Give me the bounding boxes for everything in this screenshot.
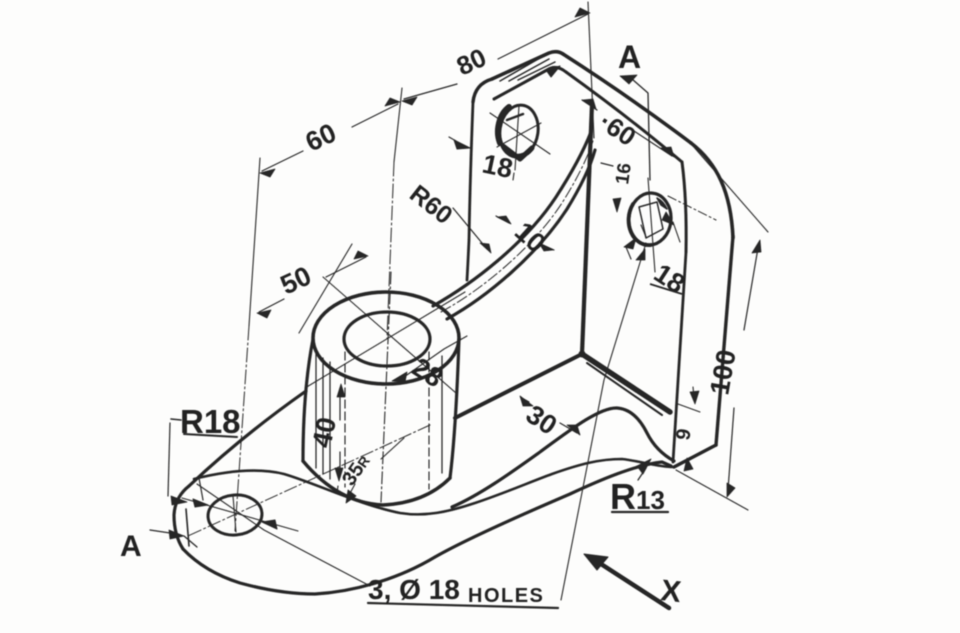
R18 leading dash: [171, 419, 181, 420]
dim 100 arrow bottom: [727, 483, 735, 497]
junction band lower line: [587, 363, 662, 415]
dim 10 arrow upper: [497, 216, 511, 224]
end cap tangent edge: [186, 509, 189, 546]
svg-text:A: A: [618, 39, 641, 75]
extension mid continues to cylinder center: [387, 162, 394, 338]
dim 9 tick top: [693, 387, 694, 398]
top band inner corner curve: [682, 162, 686, 252]
hole 2 dashdot NE: [668, 196, 716, 220]
base bottom silhouette: [183, 462, 671, 594]
hole 1 dim arrow lower-left: [454, 140, 470, 149]
dim .60 arrow right: [661, 147, 674, 157]
dim 18 hole2 stub lower: [626, 247, 631, 259]
extension line left: [249, 158, 260, 326]
band hatch stroke 2: [509, 59, 549, 81]
dim 9 arrow up: [684, 458, 693, 471]
dim 18 hole2: lower-left arrow: [624, 238, 636, 249]
dim 80 arrow left: [402, 97, 417, 105]
cylinder bottom arc: [303, 461, 450, 505]
top band inner edge left leg: [494, 67, 566, 99]
upright plate: top-left corner arc: [473, 79, 492, 102]
extension line mid: [394, 88, 402, 162]
dimension 100 line: [728, 248, 758, 490]
vertical ridge between the two faces: [582, 104, 592, 354]
dim 18 hole2 stub upper: [673, 222, 680, 242]
web centerline dash-dot: [441, 141, 593, 312]
right face inner vertical edge: [673, 252, 686, 462]
base left end cap outer arc: [174, 486, 189, 549]
holes label leader from hole3: [197, 484, 370, 586]
dim 16 line to hole: [614, 200, 617, 210]
end cap inner tick: [199, 478, 203, 500]
dim 9 arrow down: [690, 391, 699, 404]
dim 10: arrows across web: [496, 216, 554, 250]
hole 3 dim line +14deg: [182, 498, 298, 531]
top band outer edge left leg: [492, 52, 563, 79]
dim 40 tick below: [337, 486, 338, 493]
extension line bottom-right: [676, 470, 748, 510]
hole 1 dark blob bottom: [503, 146, 532, 159]
dim 100 arrow top: [752, 240, 761, 253]
section line A bottom: leader: [150, 530, 170, 533]
extension line top-right for 100: [693, 146, 768, 232]
hole2 18 label underline: [650, 284, 682, 294]
dim 40: line: [339, 388, 341, 477]
section tail bottom: [184, 536, 197, 547]
R13 arrow: [637, 459, 651, 474]
holes label underline: [368, 603, 558, 608]
hole 1 rim dark arc top-left: [498, 107, 509, 143]
dimension 50: line: [259, 257, 366, 312]
hole 1 centerline diag b: [497, 123, 541, 147]
dim 28 leader: [404, 336, 467, 377]
band corner dark wedge / dim arrow on band: [546, 66, 560, 77]
cylinder axis dash-dot: [381, 272, 391, 502]
dim 30: line: [522, 398, 577, 433]
hole 2 rim: [627, 191, 673, 246]
band hatch stroke 3: [518, 62, 555, 80]
cylinder inner hole ellipse: [344, 312, 430, 366]
R18 leader down: [168, 423, 170, 496]
cylinder left edge: [303, 339, 313, 461]
dim 40 arrow bottom: [335, 468, 343, 481]
upright plate: left face left edge: [467, 102, 473, 280]
dim .60 arrow left: [583, 99, 596, 109]
svg-text:HOLES: HOLES: [468, 585, 544, 607]
hole 2 rim dark arc left-bottom: [629, 204, 651, 245]
section arrow A bottom: [169, 530, 184, 539]
X arrowhead: [584, 554, 608, 570]
cylinder top centerline SW-NE: [305, 292, 465, 388]
right silhouette vertical edge: [716, 236, 733, 445]
R18 arrow: [171, 496, 187, 505]
hole 3 vertical centerline through: [233, 496, 236, 532]
dimension 80: line: [404, 14, 588, 99]
cylinder outer top ellipse: [313, 292, 459, 384]
section line A top: arrow: [620, 75, 637, 84]
svg-text:18: 18: [480, 149, 516, 185]
hole 2 top-right wedge: [657, 198, 667, 209]
top band outer edge right leg: [563, 54, 691, 143]
dim 28 arrow: [392, 372, 407, 382]
top band outer corner curve: [691, 143, 733, 238]
hole 1 dim stub: [449, 137, 456, 141]
svg-text:3, Ø 18: 3, Ø 18: [368, 574, 460, 605]
dim 10 arrow lower: [539, 243, 553, 251]
base front-top edge (dip curve): [194, 459, 673, 514]
hole 1 facet chord: [507, 114, 523, 120]
cylinder hidden hole edge left dashed: [344, 352, 346, 487]
hole 2 facet line: [641, 225, 646, 237]
dim 50 extension: [299, 244, 352, 333]
R13 underline: [612, 511, 668, 513]
inner corner knot: [579, 351, 586, 358]
dim 50 arrow left: [257, 310, 271, 318]
band hatch stroke 1: [500, 58, 540, 81]
hole 2 vertical centerline: [648, 178, 655, 272]
dim 18 hole2: upper-right arrow: [662, 212, 674, 225]
holes label leader from hole2: [561, 243, 646, 600]
hole 1 rim: [497, 103, 542, 160]
cylinder top centerline NW-SE: [323, 277, 456, 393]
cylinder shading line 2: [322, 358, 324, 474]
svg-text:X: X: [659, 574, 682, 609]
R18 underline: [184, 434, 237, 437]
dim 30 arrow ul: [520, 396, 533, 406]
dimension 60 upper-left: line: [262, 104, 398, 171]
top band inner edge right leg: [566, 72, 682, 162]
cylinder right edge: [450, 339, 459, 478]
svg-text:R18: R18: [180, 403, 241, 440]
web outer curve: [433, 132, 591, 306]
dim .60 top right: line: [582, 100, 672, 156]
dim 40 arrow top: [337, 384, 345, 397]
dim 16 arrow: [613, 198, 621, 212]
hole 1 centerline vertical: [513, 106, 519, 180]
plate bottom edge: [674, 445, 716, 467]
base axis dash-dot: [188, 425, 430, 536]
dim 16 ticks near hole2: [601, 163, 613, 166]
web inner curve: [447, 150, 595, 319]
svg-text:16: 16: [612, 162, 636, 186]
hole 2 inner facet quad: [639, 202, 663, 238]
35R dim line: [348, 438, 404, 497]
cylinder right shading line: [441, 356, 443, 473]
svg-text:A: A: [120, 530, 142, 563]
dim 50 arrow right: [354, 251, 368, 259]
rib top edge S-curve (crest + R13 fillet): [452, 408, 674, 507]
cylinder hidden hole edge right dashed: [428, 352, 430, 489]
dim 60 arrow left: [260, 169, 275, 177]
X axis arrow line: [601, 564, 669, 608]
dim 80 arrow right: [575, 8, 590, 17]
R60 leader: [453, 208, 487, 249]
dim 30 arrow lr: [567, 425, 580, 435]
base rear edge: [189, 391, 306, 486]
inner corner: web-base junction thick band: [582, 354, 670, 412]
extension line right (x=591): [588, 2, 594, 138]
dim 9 faint edge: [678, 404, 700, 412]
hole 3 dim arrow left: [193, 499, 208, 507]
R13 leader: [638, 468, 646, 480]
inner corner: base rear-top edge: [455, 354, 582, 418]
cylinder shading line 1: [315, 352, 317, 468]
dim 60 arrow right: [385, 98, 400, 106]
hole 3 dim arrow right: [262, 520, 277, 529]
svg-text:40: 40: [307, 415, 343, 451]
35R arrow: [346, 490, 356, 503]
cylinder shading line 3: [329, 362, 331, 479]
section line A top: bent leader: [632, 79, 650, 180]
leader arrowhead at hole2: [636, 249, 645, 260]
hole 1 centerline diag a: [490, 113, 550, 154]
R60 arrow: [480, 243, 491, 253]
extension left continues to hole3: [235, 326, 249, 531]
base hole 3 rim: [206, 493, 263, 538]
